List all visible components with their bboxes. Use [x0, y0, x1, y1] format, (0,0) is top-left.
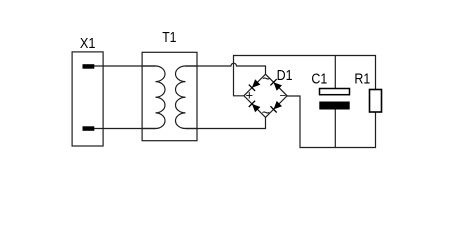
svg-text:−: − [279, 91, 286, 103]
svg-text:X1: X1 [80, 35, 96, 52]
svg-text:T1: T1 [162, 29, 176, 46]
svg-text:D1: D1 [277, 67, 293, 84]
svg-text:~: ~ [262, 70, 270, 86]
svg-text:+: + [246, 88, 254, 103]
svg-text:~: ~ [262, 104, 270, 120]
svg-text:C1: C1 [311, 71, 327, 88]
svg-text:R1: R1 [354, 70, 370, 87]
